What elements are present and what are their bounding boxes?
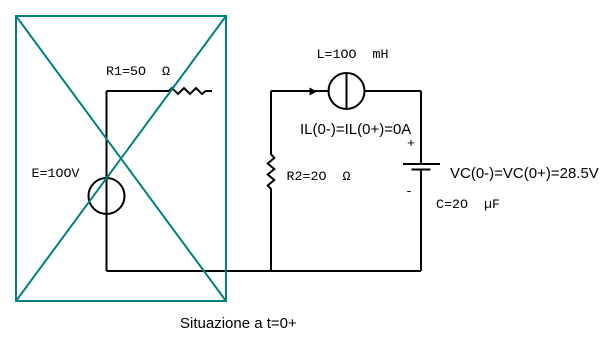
svg-text:R2=2O Ω: R2=2O Ω [287,170,351,185]
svg-text:VC(0-)=VC(0+)=28.5V: VC(0-)=VC(0+)=28.5V [450,165,599,182]
svg-text:+: + [407,137,415,152]
svg-text:E=1OOV: E=1OOV [32,167,80,182]
svg-text:C=2O µF: C=2O µF [436,198,500,213]
svg-text:IL(0-)=IL(0+)=0A: IL(0-)=IL(0+)=0A [300,121,411,138]
svg-text:-: - [405,185,413,200]
svg-text:Situazione a t=0+: Situazione a t=0+ [180,315,297,332]
svg-text:R1=5O Ω: R1=5O Ω [106,65,170,80]
svg-text:L=1OO mH: L=1OO mH [317,48,389,63]
